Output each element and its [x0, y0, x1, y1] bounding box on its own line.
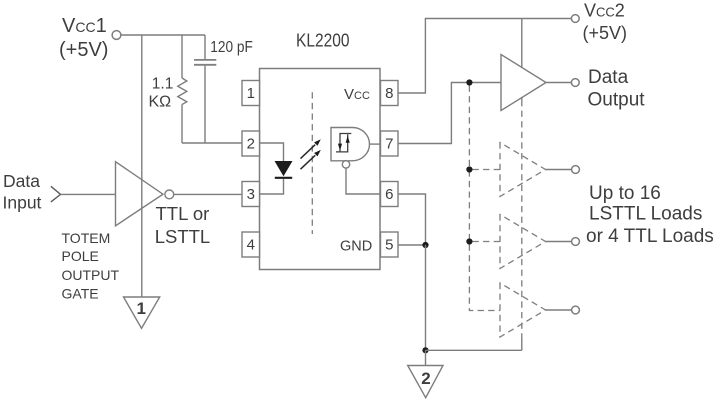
- junction pin5 ground: [422, 242, 428, 248]
- ground 1 triangle: [124, 297, 160, 328]
- wire detector output to pin 7: [370, 143, 381, 145]
- terminal Vcc2: [571, 15, 579, 23]
- svg-text:or 4 TTL Loads: or 4 TTL Loads: [586, 226, 714, 247]
- svg-text:POLE: POLE: [62, 248, 99, 264]
- wire Vcc1 to gate and ground 1: [141, 35, 143, 297]
- wire ground vertical: [425, 245, 427, 350]
- resistor R1 1.1k zigzag: [178, 78, 187, 105]
- LED D1 triangle: [275, 161, 293, 176]
- pin 2 box: [242, 131, 260, 156]
- svg-text:2: 2: [421, 369, 430, 388]
- terminal load 1: [572, 166, 580, 174]
- terminal load 3: [572, 306, 580, 314]
- pin 5 box: [381, 232, 399, 257]
- junction output node: [466, 79, 472, 85]
- svg-text:GATE: GATE: [62, 286, 99, 302]
- wire gate output to pin 3: [174, 193, 242, 195]
- detector enable bubble: [342, 161, 349, 168]
- photodetector U1b D-shape: [331, 128, 370, 161]
- svg-text:1: 1: [247, 85, 255, 102]
- pin 1 box: [242, 81, 260, 106]
- buffer U2 totem pole gate triangle: [116, 162, 164, 226]
- svg-text:VCC1: VCC1: [62, 15, 107, 37]
- wire RC node to pin 2: [182, 142, 242, 144]
- pin 8 box: [381, 81, 399, 106]
- wire pin 8 to Vcc2: [398, 19, 571, 94]
- svg-text:1.1: 1.1: [152, 76, 174, 93]
- capacitor C1 120pF plates: [194, 60, 216, 65]
- svg-text:LSTTL: LSTTL: [155, 226, 211, 247]
- isolation barrier dashed line: [311, 92, 313, 234]
- svg-text:8: 8: [385, 85, 393, 102]
- wire capacitor bottom: [204, 66, 206, 143]
- svg-text:Data: Data: [588, 67, 629, 88]
- wire pin 6 to ground node: [398, 194, 426, 245]
- svg-text:4: 4: [247, 237, 255, 254]
- wire load 2 output: [546, 241, 572, 243]
- wire capacitor top: [204, 35, 206, 59]
- ground 2 triangle: [408, 366, 443, 398]
- junction load 2: [466, 238, 472, 244]
- wire data input: [61, 193, 116, 195]
- op-amp U1 KL2200 IC body: [260, 69, 381, 270]
- wire ground stub to triangle 2: [425, 350, 427, 365]
- wire resistor top: [181, 35, 183, 78]
- svg-text:120 pF: 120 pF: [210, 39, 253, 56]
- svg-text:2: 2: [247, 136, 255, 153]
- wire load 3 output: [546, 309, 572, 311]
- input arrow chevron: [51, 186, 61, 202]
- wire Vcc2 dashed down to loads: [521, 100, 523, 338]
- svg-text:KL2200: KL2200: [296, 31, 350, 51]
- svg-text:(+5V): (+5V): [59, 39, 108, 61]
- light arrow lower: [301, 155, 316, 169]
- wire load 1 output: [546, 169, 572, 171]
- dashed load input bus: [469, 86, 500, 311]
- load buffer 2 dashed triangle: [500, 215, 546, 269]
- svg-text:OUTPUT: OUTPUT: [62, 267, 120, 283]
- wire dashed to load 1: [473, 169, 501, 171]
- load buffer 1 dashed triangle: [500, 143, 546, 197]
- svg-text:1: 1: [136, 299, 145, 318]
- wire pin 5 to ground node: [398, 244, 426, 246]
- svg-text:GND: GND: [340, 238, 372, 254]
- wire pin 2 to LED anode: [260, 143, 284, 161]
- wire data output: [546, 82, 571, 84]
- svg-text:(+5V): (+5V): [583, 23, 628, 43]
- svg-text:Up to 16: Up to 16: [589, 183, 661, 204]
- svg-text:TOTEM: TOTEM: [62, 230, 111, 246]
- terminal load 2: [572, 238, 580, 246]
- svg-text:LSTTL Loads: LSTTL Loads: [589, 204, 702, 225]
- wire dashed to load 2: [473, 241, 501, 243]
- terminal Vcc1: [112, 31, 121, 40]
- svg-text:Output: Output: [588, 90, 646, 111]
- wire Vcc1 rail: [122, 34, 206, 36]
- wire detector bubble to pin 6: [346, 168, 381, 194]
- svg-text:VCC2: VCC2: [584, 0, 625, 20]
- wire LED cathode to pin 3: [260, 179, 284, 194]
- svg-text:6: 6: [385, 186, 393, 203]
- wire pin 7 to output buffer input: [398, 83, 501, 144]
- svg-text:KΩ: KΩ: [149, 93, 172, 110]
- svg-text:Input: Input: [3, 193, 42, 213]
- wire load supply bottom: [521, 338, 523, 350]
- pin 4 box: [242, 232, 260, 257]
- svg-text:7: 7: [385, 136, 393, 153]
- svg-text:TTL or: TTL or: [156, 203, 210, 224]
- buffer U2 output bubble: [165, 190, 174, 199]
- svg-text:Data: Data: [3, 171, 40, 191]
- svg-text:3: 3: [247, 186, 255, 203]
- pin 7 box: [381, 131, 399, 156]
- buffer U3 output driver triangle: [501, 55, 546, 111]
- wire ground to load supply: [426, 349, 522, 351]
- junction load 1: [466, 166, 472, 172]
- pin 6 box: [381, 182, 399, 207]
- wire resistor bottom: [181, 105, 183, 144]
- LED D1 cathode bar: [275, 177, 292, 179]
- load buffer 3 dashed triangle: [500, 283, 546, 337]
- junction ground bottom: [422, 347, 428, 353]
- pin 3 box: [242, 182, 260, 207]
- schmitt hysteresis symbol: [336, 134, 351, 152]
- wire Vcc2 down to output buffer: [521, 19, 523, 101]
- terminal data output: [571, 79, 579, 87]
- svg-text:5: 5: [385, 237, 393, 254]
- light arrow upper: [301, 145, 316, 159]
